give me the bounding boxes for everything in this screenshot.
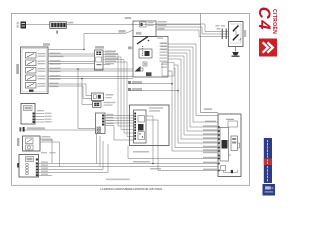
wire labels right of B5	[41, 152, 56, 175]
BSI lower box	[130, 105, 170, 146]
side index bar	[264, 138, 272, 183]
page border frame	[12, 14, 250, 186]
wire battery feed top	[26, 14, 218, 113]
ground M1	[235, 47, 237, 52]
junction	[77, 68, 79, 70]
pin labels relay box	[38, 53, 46, 87]
wires BSI right exits	[146, 116, 218, 171]
wire label on feed	[119, 30, 126, 33]
wires below BSI	[128, 81, 179, 91]
BSI switch symbol	[137, 37, 148, 45]
ECU box bottom right	[218, 114, 241, 177]
wire label row ACXN	[20, 127, 96, 134]
label column at ECU left	[203, 108, 217, 170]
interface unit box left	[21, 104, 35, 125]
wires from B4	[40, 139, 60, 167]
BSI relay block	[139, 49, 152, 58]
BSI box main	[125, 17, 168, 77]
connector BB10	[21, 22, 27, 29]
relay 4	[26, 75, 37, 81]
svg-text:C4: C4	[255, 7, 273, 31]
stub labels right of BB24	[105, 51, 118, 65]
connector BB24 mid	[95, 46, 105, 70]
relay box PSF1	[16, 43, 50, 93]
switch box B4	[17, 136, 53, 151]
labels left of fan	[161, 43, 168, 50]
BSI connector column	[134, 110, 147, 143]
connector box small 2 hatched	[93, 102, 116, 108]
wire fan right of BSI	[168, 44, 218, 151]
body connector C001	[96, 113, 114, 134]
left margin ticks BSI	[128, 46, 132, 49]
wire labels right of relay box	[50, 53, 64, 88]
wires from B5 bundle to C001	[39, 134, 219, 176]
fuse box BB00	[50, 22, 74, 34]
long wire A	[128, 146, 218, 159]
connector box small 1	[92, 93, 114, 101]
BSI pin label column	[157, 38, 167, 68]
wires from relay box	[48, 30, 133, 128]
BSI small parts	[143, 62, 147, 66]
thermal element	[29, 90, 34, 92]
connector bars	[222, 29, 223, 40]
relay 2	[26, 60, 37, 66]
relay 1	[26, 53, 37, 59]
chevron badge	[259, 39, 277, 57]
dashed divider	[142, 46, 143, 56]
BSI sub box lower right	[162, 63, 174, 77]
relay 5	[26, 83, 37, 89]
mirror unit box top right	[229, 22, 247, 47]
wires BSI top to mirror unit	[156, 24, 229, 37]
svg-text:LA 308 BVA CARROSSERIE A PARTI: LA 308 BVA CARROSSERIE A PARTIR DE OPR 1…	[100, 187, 162, 191]
wires C001 to BSI fan	[105, 116, 134, 141]
heater box B5	[17, 155, 38, 178]
relay 3	[26, 68, 37, 74]
logo CITROEN C4	[255, 7, 278, 34]
wires from interface unit	[35, 114, 44, 123]
index badge	[263, 184, 276, 196]
